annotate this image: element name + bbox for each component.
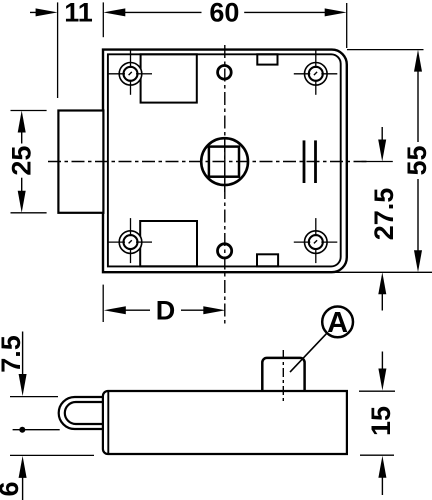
screw hole bottom-left xyxy=(109,218,153,263)
side view case xyxy=(103,391,347,454)
dimension 60 xyxy=(103,0,346,28)
side view nub (part A) xyxy=(262,358,304,393)
top cutout rectangle xyxy=(141,54,197,102)
screw hole top-left xyxy=(109,50,153,95)
dimension 7.5 xyxy=(0,332,58,397)
svg-text:A: A xyxy=(327,307,348,339)
extension line x=103.3 xyxy=(102,2,104,37)
side view bolt outer loop xyxy=(59,397,105,429)
svg-text:7.5: 7.5 xyxy=(0,335,26,373)
lock body inner contour xyxy=(108,54,341,266)
extension line x=346.7 xyxy=(346,3,348,48)
dimension 27.5 xyxy=(362,127,399,311)
dimension 15 xyxy=(359,352,396,496)
bolt (latch) left protrusion xyxy=(58,111,103,213)
screw hole top-right xyxy=(294,50,338,95)
nub centerline xyxy=(282,350,284,402)
side view bolt inner loop xyxy=(65,402,105,424)
spindle circle xyxy=(201,138,248,185)
double bar right xyxy=(314,140,317,183)
svg-text:25: 25 xyxy=(6,146,36,176)
svg-text:6: 6 xyxy=(0,481,24,496)
svg-text:60: 60 xyxy=(209,0,239,28)
dimension 25 xyxy=(6,111,46,213)
bolt centerline xyxy=(13,429,60,431)
double bar left xyxy=(303,140,306,183)
small hole top-center xyxy=(218,66,232,80)
svg-text:27.5: 27.5 xyxy=(369,188,399,241)
bottom cutout rectangle xyxy=(140,221,197,266)
horizontal centerline xyxy=(48,161,368,163)
dimension 55 xyxy=(335,50,432,273)
svg-text:D: D xyxy=(156,296,176,326)
lock body outer outline xyxy=(103,50,347,273)
dimension 6 xyxy=(0,455,94,500)
svg-text:15: 15 xyxy=(366,406,396,436)
svg-text:55: 55 xyxy=(402,145,432,175)
detail label A leader line xyxy=(290,333,327,372)
bolt center dot xyxy=(19,427,25,433)
top tab xyxy=(257,54,277,64)
side view case inner edge xyxy=(107,392,109,453)
dimension 11 xyxy=(30,0,93,28)
dimension D xyxy=(103,285,225,326)
screw hole bottom-right xyxy=(294,218,338,263)
svg-text:11: 11 xyxy=(64,0,93,28)
detail label A circle xyxy=(322,307,353,338)
spindle square xyxy=(209,147,239,177)
small hole bottom-center xyxy=(218,244,232,258)
vertical centerline solid segment through square xyxy=(224,137,226,192)
extension line x=57.6 xyxy=(57,2,59,98)
bottom tab xyxy=(257,254,278,266)
vertical centerline xyxy=(224,45,226,325)
